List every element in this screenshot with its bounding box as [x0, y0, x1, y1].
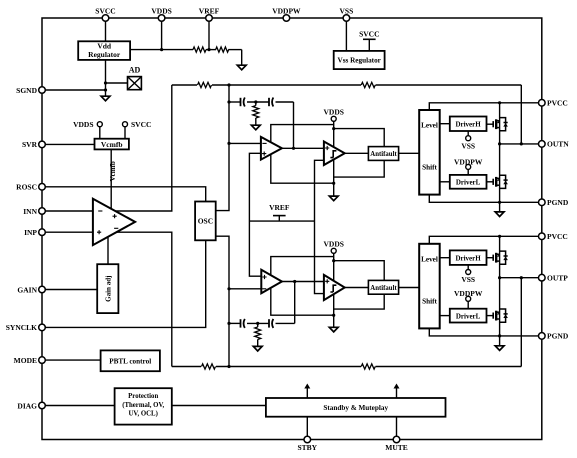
wire comparator reference vertical: [315, 160, 324, 293]
svg-text:Shift: Shift: [422, 164, 437, 172]
wire LevelShift2 to DriverH2: [440, 257, 450, 259]
pin PVCC lower-right: [539, 233, 546, 240]
ground after Rb: [237, 65, 246, 70]
wire Antifault1 to Level Shift: [399, 152, 420, 154]
wire comparator1 to Antifault: [345, 152, 369, 154]
transistor Q2 low-side: [487, 181, 494, 183]
node VREF-rail junction: [207, 48, 210, 51]
svg-text:MODE: MODE: [14, 356, 37, 365]
Antifault block 1: [368, 147, 398, 161]
svg-text:Regulator: Regulator: [88, 50, 121, 59]
wire SVCC to Vcmfb: [124, 127, 126, 139]
ground cap network 1: [251, 125, 260, 130]
wire VDDS pin stem: [161, 18, 163, 50]
Standby & Muteplay block: [266, 398, 446, 417]
wire cap network 2: [229, 322, 240, 324]
wire MUTE stem: [396, 417, 398, 440]
pin PVCC top-right: [539, 100, 546, 107]
ground below low-side FET 1: [495, 212, 504, 217]
resistor to ground 1: [255, 102, 257, 106]
capacitor C3: [240, 319, 242, 327]
svg-text:PGND: PGND: [547, 198, 569, 207]
svg-text:PGND: PGND: [547, 332, 569, 341]
svg-text:Shift: Shift: [422, 297, 437, 305]
wire SVCC pin to Vdd Regulator: [105, 18, 107, 41]
terminal SVCC T-bar above Vss Regulator: [368, 39, 370, 51]
wire VREF rail verticals: [249, 153, 261, 276]
transistor Q4 low-side: [487, 315, 494, 317]
svg-text:Protection: Protection: [128, 393, 158, 400]
svg-text:SYNCLK: SYNCLK: [6, 323, 37, 332]
node feedback tap top: [227, 83, 230, 86]
ground cap network 2: [253, 346, 262, 351]
svg-text:SGND: SGND: [16, 86, 37, 95]
wire PGND2 rail: [429, 328, 542, 336]
node VDDS-rail junction: [160, 48, 163, 51]
wire SYNCLK pin to OSC: [42, 240, 206, 327]
wire Vcmfb output to input amp: [110, 149, 112, 209]
svg-text:AD: AD: [129, 66, 141, 75]
svg-text:SVCC: SVCC: [359, 30, 379, 39]
pin MUTE: [393, 436, 400, 443]
wire STBY stem: [306, 417, 308, 440]
wire Antifault2 to Level Shift: [399, 287, 420, 289]
DriverL block 1: [450, 175, 487, 189]
transistor Q1 high-side: [487, 123, 494, 125]
power loop outer 2: [271, 257, 334, 316]
pin VDDS top: [158, 15, 165, 22]
Level Shift block 2: [419, 244, 440, 329]
wire OSC output top: [216, 85, 229, 211]
wire OUTP line: [500, 277, 542, 279]
node cap mid 1: [254, 100, 257, 103]
pin PGND lower: [539, 333, 546, 340]
wire VREF horizontal rail: [249, 220, 314, 222]
svg-text:Vcmfb: Vcmfb: [101, 140, 123, 149]
svg-text:SVR: SVR: [22, 140, 38, 149]
wire integrator1 output to comparator: [282, 147, 324, 149]
op-amp A1 input stage: [93, 199, 135, 245]
svg-text:Level: Level: [421, 256, 438, 264]
wire SGND pin line: [42, 89, 106, 91]
wire ROSC pin to OSC: [42, 187, 206, 202]
terminal VDDS comparator 1: [333, 121, 335, 196]
svg-text:VSS: VSS: [461, 141, 475, 150]
wire GAIN pin to Gain adj: [42, 289, 97, 291]
svg-text:Standby & Muteplay: Standby & Muteplay: [323, 404, 388, 412]
svg-text:UV, OCL): UV, OCL): [129, 410, 158, 417]
comparator U5 bottom: [324, 275, 345, 300]
wire feedback OUTP bottom line: [172, 366, 201, 368]
resistor Rb on Vdd rail: [216, 47, 229, 52]
wire DIAG pin to Protection: [42, 405, 115, 407]
terminal VDDS above Vcmfb: [97, 122, 102, 127]
wire MODE pin to PBTL control: [42, 359, 101, 361]
svg-text:DriverH: DriverH: [455, 121, 481, 129]
svg-text:STBY: STBY: [298, 443, 318, 452]
ground comparator 1: [329, 196, 338, 201]
svg-text:INN: INN: [23, 207, 37, 216]
wire integrator2 output to comparator: [282, 281, 324, 283]
svg-text:VSS: VSS: [461, 275, 475, 284]
DriverL block 2: [450, 309, 487, 323]
wire INN pin line: [42, 210, 93, 212]
terminal VSS below DriverH1: [467, 131, 469, 136]
svg-text:VREF: VREF: [269, 203, 290, 212]
svg-text:(Thermal, OV,: (Thermal, OV,: [122, 402, 164, 409]
pin ROSC: [39, 184, 46, 191]
wire PGND1 rail: [429, 195, 542, 203]
comparator U4 top: [324, 142, 345, 166]
power loop outer 1: [271, 125, 334, 184]
op-amp A2 integrator top: [261, 137, 282, 160]
svg-text:DriverL: DriverL: [456, 179, 481, 187]
wire OUTN line: [500, 143, 542, 145]
wire drain vertical 1: [499, 103, 501, 212]
pin SVCC top: [102, 15, 109, 22]
pin VDDPW top: [283, 15, 290, 22]
svg-text:OSC: OSC: [198, 217, 213, 226]
wire Protection to Standby block: [172, 405, 266, 407]
wire cap network 1: [229, 101, 240, 103]
wire LevelShift1 to DriverL1: [440, 181, 450, 183]
wire LevelShift2 to DriverL2: [440, 315, 450, 317]
resistor feedback R1: [198, 82, 212, 87]
Gain adj block: [97, 264, 118, 313]
Protection block: [115, 388, 172, 424]
arrow standby up: [306, 388, 308, 399]
wire Gain adj stem: [107, 237, 109, 264]
node cap mid 2: [256, 322, 259, 325]
pin SGND: [39, 87, 46, 94]
wire Vdd regulator output rail: [130, 49, 193, 51]
pad AD crossed box: [128, 77, 142, 90]
wire PVCC1 rail: [429, 103, 542, 110]
wire comparator2 to Antifault: [345, 287, 369, 289]
ground below low-side FET 2: [495, 346, 504, 351]
pin SYNCLK: [39, 324, 46, 331]
pin INN: [39, 208, 46, 215]
svg-text:DIAG: DIAG: [17, 401, 37, 410]
PBTL control block: [101, 350, 160, 371]
svg-text:PVCC: PVCC: [547, 232, 568, 241]
capacitor C1: [240, 98, 242, 106]
node SGND junction: [104, 88, 107, 91]
pin VREF top: [206, 15, 213, 22]
resistor feedback R2: [361, 82, 375, 87]
svg-text:Antifault: Antifault: [370, 285, 397, 292]
frame / IC boundary: [42, 18, 542, 440]
svg-text:ROSC: ROSC: [16, 183, 37, 192]
pin DIAG: [39, 402, 46, 409]
wire VDDS to Vcmfb: [99, 127, 101, 139]
svg-text:Gain adj: Gain adj: [105, 276, 113, 302]
wire integrator1 inverting input: [229, 142, 261, 144]
pin OUTN: [539, 141, 546, 148]
node integrator1 fb: [292, 147, 295, 150]
wire PVCC2 rail: [429, 236, 542, 244]
svg-text:Antifault: Antifault: [370, 151, 397, 158]
svg-text:INP: INP: [24, 228, 37, 237]
node AD tap: [104, 81, 107, 84]
capacitor C2: [268, 98, 270, 106]
wire VREF pin stem: [208, 18, 210, 50]
svg-text:Vss Regulator: Vss Regulator: [338, 57, 382, 65]
wire to AD pad: [106, 82, 128, 84]
wire SVR pin to Vcmfb: [42, 143, 95, 145]
wire INP pin line: [42, 231, 93, 233]
power loop inner 2: [334, 261, 385, 309]
ground comparator 2: [329, 327, 338, 332]
svg-text:SVCC: SVCC: [131, 120, 151, 129]
wire Vdd Regulator to SGND: [105, 60, 107, 96]
svg-text:GAIN: GAIN: [17, 285, 37, 294]
op-amp A3 integrator bottom: [261, 270, 282, 294]
svg-text:Level: Level: [421, 122, 438, 130]
resistor Ra on Vdd rail: [193, 47, 206, 52]
pin GAIN: [39, 286, 46, 293]
pin SVR: [39, 141, 46, 148]
svg-text:VDDS: VDDS: [323, 108, 343, 117]
DriverH block 1: [450, 117, 487, 132]
terminal VSS below DriverH2: [467, 265, 469, 270]
svg-text:PVCC: PVCC: [547, 99, 568, 108]
Vdd Regulator U1: [78, 41, 130, 60]
wire amp output minus to feedback node: [116, 232, 172, 366]
svg-text:VDDS: VDDS: [323, 240, 343, 249]
svg-text:VDDPW: VDDPW: [272, 7, 301, 16]
node OUTN feedback tap: [520, 142, 523, 145]
pin STBY: [304, 436, 311, 443]
transistor Q3 high-side: [487, 257, 494, 259]
pin INP: [39, 229, 46, 236]
wire drain vertical 2: [499, 236, 501, 345]
Level Shift block 1: [419, 110, 440, 195]
wire OSC output bottom: [216, 236, 229, 366]
node integrator2 fb: [293, 280, 296, 283]
terminal VREF T-bar: [278, 216, 280, 222]
svg-text:DriverH: DriverH: [455, 254, 481, 262]
pin PGND upper: [539, 199, 546, 206]
svg-text:MUTE: MUTE: [385, 443, 408, 452]
resistor feedback R4: [361, 364, 375, 369]
power loop inner 1: [334, 129, 385, 178]
svg-text:VDDS: VDDS: [73, 120, 93, 129]
DriverH block 2: [450, 250, 487, 265]
node feedback tap bottom: [227, 365, 230, 368]
svg-text:Vcmfb: Vcmfb: [109, 161, 117, 181]
Vss Regulator U2: [334, 51, 385, 69]
wire integrator2 inverting input: [229, 288, 261, 290]
resistor feedback R3: [202, 364, 216, 369]
pin VSS top: [343, 15, 350, 22]
svg-text:VDDS: VDDS: [151, 7, 171, 16]
svg-text:SVCC: SVCC: [95, 7, 115, 16]
wire LevelShift1 to DriverH1: [440, 123, 450, 125]
svg-text:OUTN: OUTN: [547, 140, 569, 149]
svg-text:VSS: VSS: [340, 7, 354, 16]
wire VSS pin to Vss Regulator: [345, 18, 347, 51]
svg-text:DriverL: DriverL: [456, 313, 481, 321]
wire feedback OUTN top line: [172, 84, 197, 86]
pin OUTP: [539, 274, 546, 281]
terminal VDDS comparator 2: [333, 253, 335, 327]
capacitor C4: [268, 319, 270, 327]
terminal SVCC above Vcmfb: [123, 122, 128, 127]
wire amp output plus to feedback node: [115, 85, 172, 211]
Antifault block 2: [368, 280, 398, 294]
svg-text:VREF: VREF: [199, 7, 220, 16]
resistor to ground 2: [257, 323, 259, 327]
svg-text:PBTL control: PBTL control: [109, 358, 151, 366]
pin MODE: [39, 357, 46, 364]
arrow mute up: [396, 388, 398, 399]
svg-text:OUTP: OUTP: [547, 274, 568, 283]
Vcmfb U3: [95, 139, 129, 150]
node OUTP feedback tap: [520, 276, 523, 279]
ground below SGND node: [101, 96, 110, 101]
